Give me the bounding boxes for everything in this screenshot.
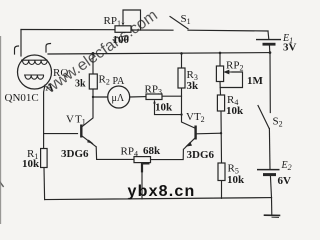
potentiometer RP1 wiper arrow <box>122 23 125 26</box>
wire RP2 bottom to R4 <box>219 82 222 96</box>
sensor heater coil top <box>21 60 48 64</box>
wire second bus <box>48 53 270 54</box>
svg-text:3k: 3k <box>75 79 86 90</box>
svg-text:1M: 1M <box>247 75 264 87</box>
switch S2 blade <box>258 106 269 129</box>
ground tick <box>272 216 279 218</box>
wire sensor A lead <box>44 85 45 149</box>
svg-text:6V: 6V <box>278 175 292 187</box>
potentiometer RP3 wiper arrow <box>153 100 156 103</box>
wire sensor lead hook left <box>15 46 19 54</box>
ground bar <box>265 214 280 216</box>
potentiometer RP4 <box>134 157 151 163</box>
svg-text:68k: 68k <box>143 145 161 157</box>
battery E1 short plate <box>263 43 276 46</box>
transistor VT2 emitter arrow <box>185 142 192 147</box>
svg-text:10k: 10k <box>155 102 173 114</box>
battery E2 long plate <box>257 169 280 171</box>
potentiometer RP1 <box>115 26 131 33</box>
junction node dots <box>92 51 272 134</box>
resistor R4 <box>217 95 224 111</box>
svg-text:100: 100 <box>113 34 130 46</box>
transistor VT1 emitter <box>82 136 96 147</box>
battery E2 short plate <box>263 173 276 176</box>
wire VT2 base to divider <box>197 132 222 135</box>
svg-text:A: A <box>46 82 54 94</box>
gas sensor RQ/QN01C circle <box>18 55 52 89</box>
wire meter left <box>93 96 108 98</box>
svg-text:3DG6: 3DG6 <box>187 149 215 161</box>
transistor VT1 bar <box>80 125 82 138</box>
wire RP4 right to VT2 emitter <box>151 149 184 159</box>
potentiometer RP4 wiper arm <box>142 163 150 172</box>
wire bus to S2 upper contact <box>269 53 271 113</box>
wire bottom bus <box>45 198 272 200</box>
watermark elecfans <box>42 7 161 97</box>
svg-text:PA: PA <box>113 76 126 87</box>
wire R2 drop from bus <box>92 53 94 74</box>
wire RP3 right end to R3 node <box>162 95 182 97</box>
wire RP2 rheostat loop <box>220 72 242 88</box>
wire E2 to bottom bus <box>270 175 271 198</box>
resistor R5 <box>218 163 225 181</box>
wire R2 bottom to collector VT1 <box>82 89 93 127</box>
wire top bus right <box>188 29 268 32</box>
potentiometer RP2 wiper arrow <box>225 70 233 73</box>
wire stub below bus <box>271 198 273 215</box>
battery E1 long plate <box>256 39 281 41</box>
wire R3 drop from bus <box>181 53 183 68</box>
svg-text:3V: 3V <box>283 42 297 54</box>
svg-text:3k: 3k <box>187 80 200 92</box>
watermark fragment bottom-left <box>0 175 7 202</box>
switch S1 blade <box>170 17 188 29</box>
wire R1 to bottom bus <box>43 168 46 200</box>
wire E1 top corner <box>267 31 270 39</box>
wire top bus mid <box>131 29 173 31</box>
potentiometer RP2 <box>216 66 223 82</box>
svg-text:ybx8.cn: ybx8.cn <box>128 183 196 200</box>
resistor R2 <box>89 74 97 89</box>
svg-text:μΛ: μΛ <box>112 93 125 104</box>
wire E1 to bus junction <box>268 45 270 53</box>
wire RP2 drop from bus <box>219 53 221 66</box>
scan edge line left <box>0 36 2 224</box>
wire meter right <box>130 96 146 98</box>
potentiometer RP3 <box>146 94 162 100</box>
svg-text:10k: 10k <box>22 158 40 170</box>
transistor VT2 bar <box>194 126 196 140</box>
wire sensor lead hook right <box>46 44 51 53</box>
svg-text:QN01C: QN01C <box>5 92 39 104</box>
wire R4 to VT2 collector node to R5 <box>220 111 223 163</box>
meter PA circle <box>108 86 130 108</box>
wire R3 bottom to collector VT2 <box>182 88 195 128</box>
resistor R3 <box>178 68 185 88</box>
wire left drop to sensor <box>20 30 22 57</box>
svg-text:10k: 10k <box>226 105 244 117</box>
potentiometer RP1 loop <box>123 10 141 30</box>
wire RP3 wiper to node <box>155 101 182 115</box>
wire RP4 wiper down <box>141 172 143 199</box>
wire top bus left <box>21 29 115 31</box>
svg-text:RQ: RQ <box>53 67 68 79</box>
svg-text:10k: 10k <box>227 174 245 186</box>
wire S2 to E2 <box>268 129 271 170</box>
sensor coil bottom <box>24 75 44 79</box>
svg-text:3DG6: 3DG6 <box>61 148 89 160</box>
resistor R1 <box>41 149 48 168</box>
wire base VT1 <box>44 133 78 135</box>
wire VT1 emitter run to RP4 <box>96 147 134 160</box>
transistor VT1 emitter arrow <box>87 140 94 144</box>
wire R5 to bottom bus <box>221 181 223 199</box>
transistor VT2 emitter <box>183 138 195 150</box>
